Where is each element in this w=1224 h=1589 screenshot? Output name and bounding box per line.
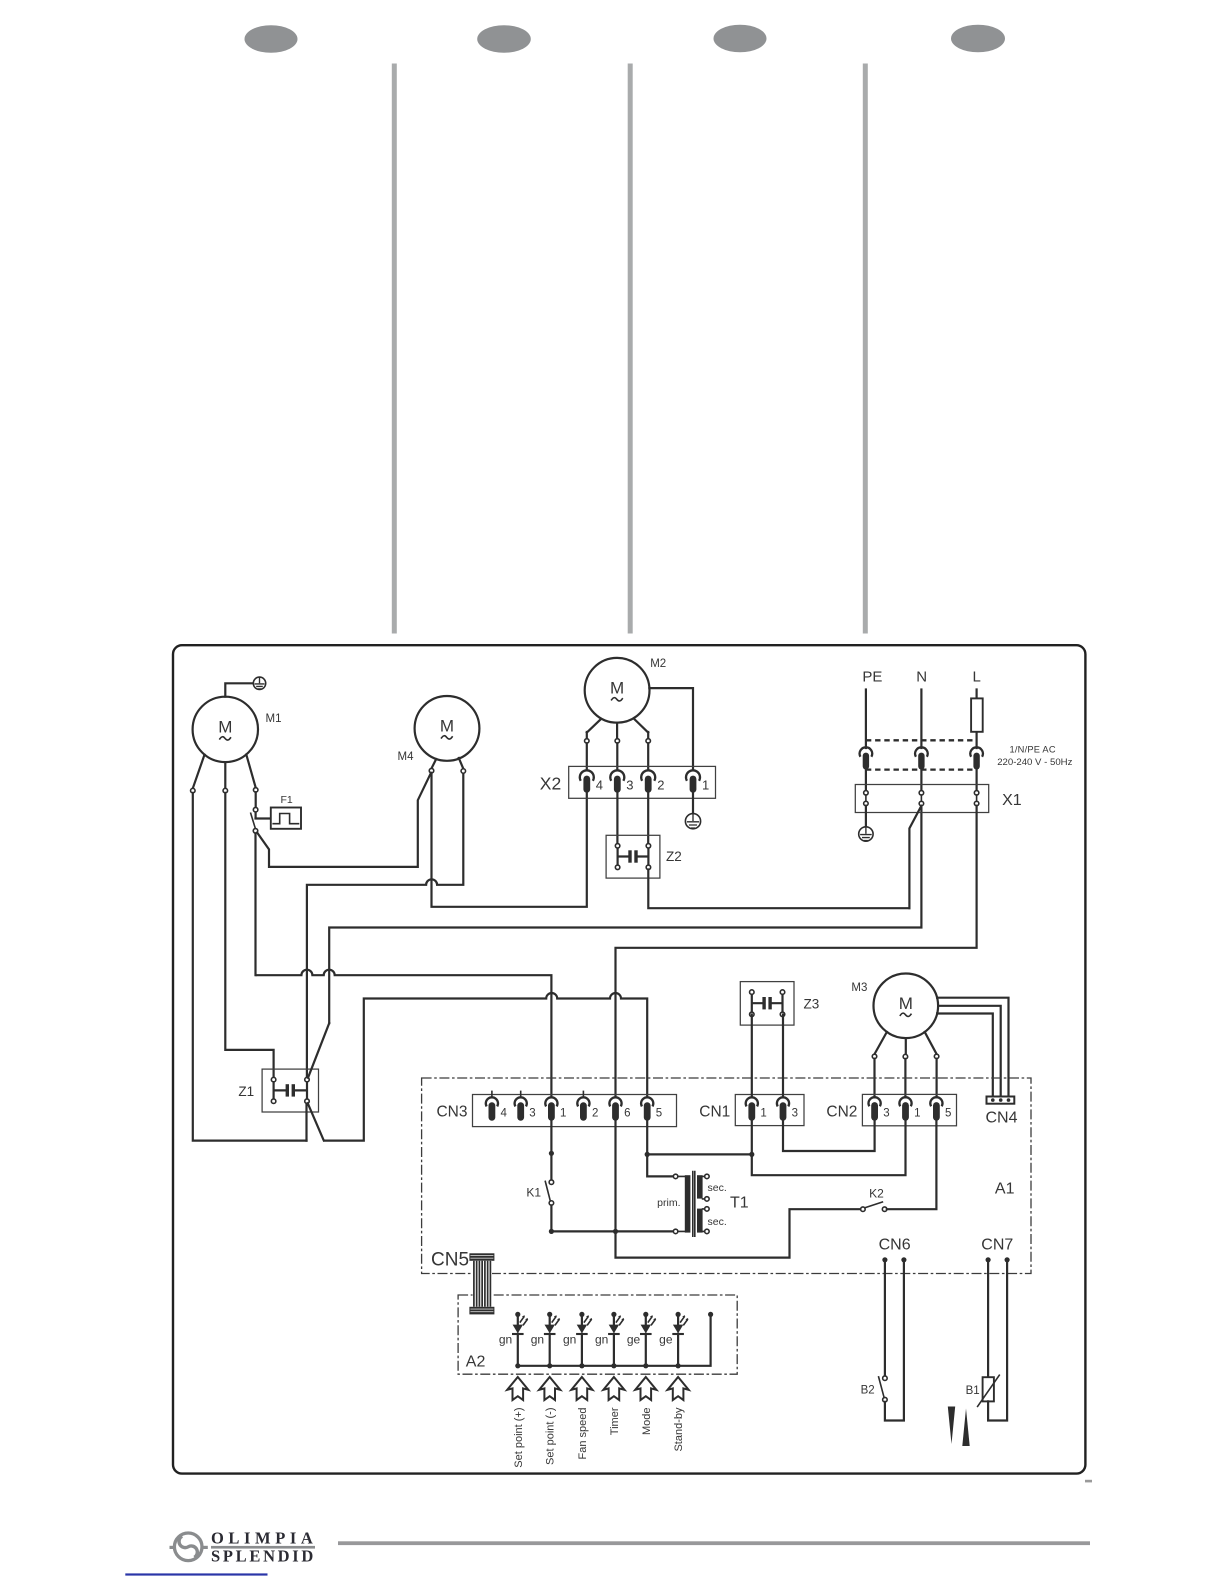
wire X2 pin 1 to ground	[692, 793, 694, 814]
svg-text:PE: PE	[862, 669, 882, 686]
svg-text:4: 4	[596, 778, 603, 793]
CN3 pin 2	[582, 1091, 584, 1097]
X1 terminals L	[974, 791, 979, 796]
svg-text:gn: gn	[595, 1333, 608, 1347]
svg-text:1: 1	[702, 778, 709, 793]
X2 pin 4	[580, 770, 594, 781]
node M2 terminal right	[646, 739, 651, 744]
motor M4	[415, 696, 480, 761]
motor M3	[874, 974, 939, 1039]
ground (X1 PE)	[859, 827, 873, 841]
logo ring	[174, 1533, 202, 1561]
svg-text:M3: M3	[851, 982, 867, 994]
svg-text:K2: K2	[869, 1187, 884, 1201]
wire M1 to ground	[225, 683, 253, 696]
wire Z3 to CN1 pin 1	[751, 1015, 753, 1098]
wire PE drop	[865, 690, 867, 749]
svg-text:gn: gn	[563, 1333, 576, 1347]
svg-text:6: 6	[624, 1108, 630, 1120]
svg-text:5: 5	[656, 1108, 662, 1120]
control board A1	[422, 1078, 1031, 1274]
svg-text:4: 4	[501, 1108, 508, 1120]
CN2 pin 3	[868, 1097, 880, 1106]
column divider 2	[628, 64, 633, 634]
wire L to CN3 pin 6	[616, 806, 977, 1098]
connector CN3	[473, 1095, 677, 1127]
LED D2 (gn)	[547, 1312, 552, 1317]
svg-text:Stand-by: Stand-by	[673, 1407, 685, 1452]
logo right stub	[203, 1546, 208, 1549]
plug contact PE	[860, 747, 873, 756]
capacitor Z2	[606, 835, 660, 878]
LED D5 (ge)	[643, 1312, 648, 1317]
node (CN3-1 net)	[549, 1151, 554, 1156]
svg-text:CN6: CN6	[879, 1237, 911, 1254]
svg-text:CN7: CN7	[981, 1237, 1013, 1254]
stray mark	[1085, 1480, 1092, 1483]
svg-text:CN3: CN3	[436, 1104, 467, 1121]
motor M1	[193, 697, 258, 762]
column divider 3	[863, 64, 868, 634]
wire M3 to CN4 (3 leads)	[937, 998, 1008, 1097]
wire Z1/M1-left to CN3 pin 5 (hops)	[324, 993, 647, 1141]
svg-text:1: 1	[760, 1108, 766, 1120]
wire CN6 left to B2	[884, 1260, 886, 1376]
wire X2 pin 2 to Z2	[647, 793, 649, 844]
button arrow: Set point (+)	[507, 1377, 528, 1400]
svg-text:3: 3	[883, 1107, 889, 1119]
temperature arrow up	[962, 1409, 969, 1447]
svg-text:M: M	[610, 679, 624, 698]
CN3 pin 6	[609, 1097, 621, 1106]
wire F1 to M4 left terminal	[257, 773, 431, 867]
display board A2	[458, 1295, 737, 1374]
binder hole 4	[951, 25, 1005, 53]
wire M4 left to X2 pin 4	[432, 773, 587, 907]
svg-text:Set point (-): Set point (-)	[545, 1408, 557, 1465]
binder hole 2	[477, 25, 531, 53]
svg-text:CN5: CN5	[431, 1250, 469, 1271]
node M4 terminal right	[461, 769, 466, 774]
wire K1 to T1 primary	[551, 1205, 673, 1231]
svg-text:F1: F1	[281, 794, 293, 806]
svg-text:sec.: sec.	[708, 1182, 727, 1194]
svg-text:OLIMPIA: OLIMPIA	[211, 1528, 317, 1547]
node M1 terminal right	[253, 788, 258, 793]
switch K1	[549, 1180, 554, 1185]
svg-text:A1: A1	[995, 1181, 1015, 1198]
wire CN7 left to B1	[987, 1260, 989, 1377]
svg-text:M4: M4	[398, 751, 415, 763]
logo underline	[211, 1546, 315, 1549]
svg-text:M1: M1	[266, 713, 282, 725]
switch blade (F1 contact)	[251, 813, 256, 828]
svg-text:3: 3	[792, 1108, 798, 1120]
svg-text:M: M	[218, 718, 232, 737]
wire M3 fan-out	[875, 1032, 937, 1054]
button arrow: Fan speed	[571, 1377, 592, 1400]
svg-text:Z2: Z2	[666, 849, 682, 864]
CN2 pin 5	[930, 1097, 942, 1106]
ground (X2)	[685, 814, 700, 829]
X1 terminals N	[919, 791, 924, 796]
wire Z1 to N (y=927.5)	[329, 806, 921, 1024]
wire M2 terminals to X2	[587, 743, 648, 770]
svg-text:CN4: CN4	[986, 1110, 1018, 1127]
button arrow: Timer	[603, 1377, 624, 1400]
node M2 terminal middle	[615, 739, 620, 744]
svg-text:L: L	[973, 669, 981, 686]
svg-text:Z3: Z3	[804, 997, 820, 1012]
plug contact N	[915, 747, 928, 756]
wire CN1-1 to CN2-1	[752, 1121, 906, 1175]
svg-text:3: 3	[626, 778, 633, 793]
connector X2	[569, 766, 716, 798]
CN3 pin 4	[491, 1091, 493, 1097]
svg-text:M2: M2	[650, 658, 666, 670]
wire X1 terminal links	[866, 795, 977, 801]
binder hole 3	[714, 25, 767, 53]
CN1 pin 1	[746, 1097, 758, 1106]
button arrow: Mode	[635, 1377, 656, 1400]
svg-text:prim.: prim.	[657, 1197, 680, 1209]
node M4 terminal left	[429, 768, 434, 773]
thermistor B1	[983, 1377, 994, 1401]
svg-text:1: 1	[560, 1108, 566, 1120]
wire plugs into X1	[866, 770, 977, 791]
svg-text:5: 5	[945, 1107, 951, 1119]
binder hole 1	[245, 25, 298, 53]
wire CN3-6 to K2	[616, 1121, 861, 1258]
LED D6 (ge)	[676, 1312, 681, 1317]
svg-text:M: M	[899, 994, 913, 1013]
motor M2	[585, 658, 650, 723]
node M3 terminal middle	[903, 1054, 908, 1059]
wire Z1 top-right diagonal	[308, 1023, 329, 1078]
connector CN4	[987, 1097, 1015, 1104]
wire M1 phase fan-out	[193, 755, 256, 789]
node M1 terminal left	[191, 788, 196, 793]
wire M3 to CN2 pins	[875, 1059, 937, 1098]
column divider 1	[392, 64, 397, 634]
CN3 pin 3	[520, 1091, 522, 1097]
thermal protector F1	[271, 808, 301, 829]
node CN3-6 junction	[613, 1229, 618, 1234]
capacitor Z3	[740, 982, 794, 1026]
node M1 terminal middle	[223, 788, 228, 793]
connector CN2	[862, 1094, 956, 1125]
svg-text:Set point (+): Set point (+)	[513, 1408, 525, 1468]
wire M1 middle phase to Z1	[225, 793, 273, 1078]
button arrow: Set point (-)	[539, 1377, 560, 1400]
node F1 contact lower	[253, 829, 258, 834]
wire L drop	[975, 690, 977, 749]
wire CN1-3 to CN2-3	[783, 1121, 875, 1151]
wire Z3 to CN1 pin 3	[782, 1015, 784, 1098]
svg-text:Timer: Timer	[609, 1407, 621, 1435]
wire CN3-5 to CN1-1	[647, 1153, 752, 1155]
X2 pin 1	[686, 770, 700, 781]
svg-text:X2: X2	[540, 774, 561, 794]
footer rule	[338, 1541, 1090, 1545]
transformer T1	[673, 1174, 678, 1179]
wire K2 to CN2 pin 5	[887, 1121, 937, 1209]
wire X2 pin 3 to Z2	[616, 793, 618, 844]
ribbon cable bottom cap	[469, 1307, 494, 1315]
ribbon cable top cap	[469, 1253, 494, 1261]
capacitor Z1	[262, 1069, 318, 1112]
LED D1 (gn)	[515, 1312, 520, 1317]
connector CN1	[735, 1095, 804, 1126]
wire M2 fan-out	[587, 719, 648, 739]
svg-text:220-240 V - 50Hz: 220-240 V - 50Hz	[997, 757, 1072, 768]
node CN1-1 tee	[749, 1152, 754, 1157]
svg-text:K1: K1	[526, 1186, 541, 1200]
footer blue line	[125, 1573, 267, 1575]
svg-text:1: 1	[914, 1107, 920, 1119]
X2 pin 2	[641, 770, 655, 781]
CN3 pin 5	[641, 1097, 653, 1106]
svg-text:N: N	[916, 669, 927, 686]
node F1 contact upper	[253, 807, 258, 812]
plug contact L	[970, 747, 983, 756]
wire CN3-1 to K1	[550, 1121, 552, 1180]
svg-text:X1: X1	[1002, 792, 1022, 809]
wire Z2 to N	[648, 870, 909, 909]
switch K2	[861, 1207, 866, 1212]
CN3 pin 1	[545, 1097, 557, 1106]
wire Z1 bottom-right links	[307, 1103, 324, 1140]
schematic frame	[173, 645, 1085, 1473]
svg-text:A2: A2	[466, 1354, 486, 1371]
svg-text:Mode: Mode	[641, 1408, 653, 1436]
svg-text:3: 3	[529, 1108, 535, 1120]
ribbon cable body	[473, 1261, 492, 1307]
temperature arrow down	[948, 1407, 955, 1445]
svg-text:B2: B2	[861, 1385, 875, 1397]
wire M1 left phase down	[193, 793, 307, 1141]
svg-text:B1: B1	[966, 1385, 980, 1397]
X1 terminals PE	[864, 791, 869, 796]
node K1 corner	[549, 1229, 554, 1234]
svg-text:1/N/PE AC: 1/N/PE AC	[1010, 745, 1056, 755]
svg-text:ge: ge	[627, 1333, 641, 1347]
wire B2 loop to CN6 right	[885, 1260, 904, 1421]
svg-text:CN1: CN1	[699, 1104, 730, 1121]
wire X1 PE to ground	[865, 806, 867, 827]
node M3 terminal left	[872, 1054, 877, 1059]
wire M1 right phase through thermal switch	[256, 792, 271, 975]
svg-text:CN2: CN2	[826, 1104, 857, 1121]
svg-text:ge: ge	[659, 1333, 673, 1347]
LED D3 (gn)	[579, 1312, 584, 1317]
svg-text:sec.: sec.	[708, 1216, 727, 1228]
node M2 terminal left	[585, 739, 590, 744]
wire M1 right phase to CN3 pin 1 (hops)	[256, 970, 552, 1098]
svg-text:2: 2	[657, 778, 664, 793]
svg-text:gn: gn	[531, 1333, 544, 1347]
wire M4 right to Z1 (hop)	[307, 773, 463, 1077]
ground (M1)	[253, 677, 265, 689]
X2 pin 3	[610, 770, 624, 781]
wire N diagonal to Z2 line	[909, 806, 921, 909]
svg-text:M: M	[440, 717, 454, 736]
fuse on L	[971, 698, 983, 731]
wire N drop	[920, 690, 922, 749]
svg-text:2: 2	[592, 1108, 598, 1120]
wire M2 to X2 pin 1	[649, 688, 693, 770]
wire CN3-5 net to T1 primary top	[647, 1121, 673, 1177]
svg-text:Fan speed: Fan speed	[577, 1408, 589, 1460]
plug coupling dashed lines	[866, 740, 977, 769]
switch B2	[883, 1376, 888, 1381]
terminal block X1	[855, 785, 988, 813]
svg-text:Z1: Z1	[238, 1084, 254, 1099]
logo S swirl	[179, 1536, 197, 1557]
svg-text:T1: T1	[730, 1195, 749, 1212]
LED cathode bus	[518, 1314, 711, 1365]
CN1 pin 3	[777, 1097, 789, 1106]
node bus right top	[708, 1312, 713, 1317]
LED D4 (gn)	[611, 1312, 616, 1317]
svg-text:gn: gn	[499, 1333, 512, 1347]
node CN3-5 tee	[645, 1152, 650, 1157]
button arrow: Stand-by	[668, 1377, 689, 1400]
node M3 terminal right	[934, 1054, 939, 1059]
CN2 pin 1	[899, 1097, 911, 1106]
logo left stub	[170, 1546, 175, 1549]
wire M4 fan-out	[432, 758, 464, 769]
svg-text:SPLENDID: SPLENDID	[211, 1546, 316, 1565]
wire B1 loop to CN7 right	[988, 1260, 1007, 1421]
